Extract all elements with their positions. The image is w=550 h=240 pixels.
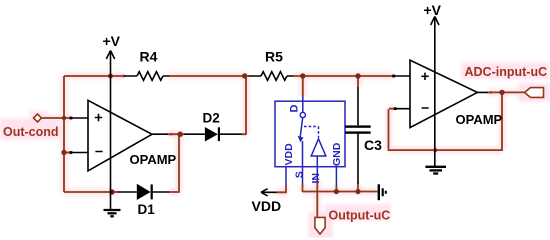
svg-text:GND: GND [331, 142, 343, 166]
svg-text:ADC-input-uC: ADC-input-uC [465, 65, 548, 79]
svg-text:+V: +V [424, 2, 442, 18]
svg-text:OPAMP: OPAMP [456, 112, 503, 127]
svg-text:D: D [289, 105, 301, 113]
svg-text:Out-cond: Out-cond [3, 125, 59, 139]
svg-text:VDD: VDD [283, 143, 295, 166]
svg-text:D1: D1 [138, 202, 156, 217]
svg-text:VDD: VDD [252, 198, 282, 214]
svg-text:C3: C3 [364, 137, 382, 153]
svg-text:S: S [293, 171, 305, 178]
svg-text:R5: R5 [265, 49, 283, 65]
svg-text:D2: D2 [203, 111, 220, 126]
svg-text:+V: +V [103, 33, 121, 49]
svg-text:IN: IN [310, 173, 322, 184]
svg-text:OPAMP: OPAMP [130, 152, 177, 167]
svg-text:Output-uC: Output-uC [329, 208, 391, 222]
svg-text:R4: R4 [140, 49, 158, 65]
